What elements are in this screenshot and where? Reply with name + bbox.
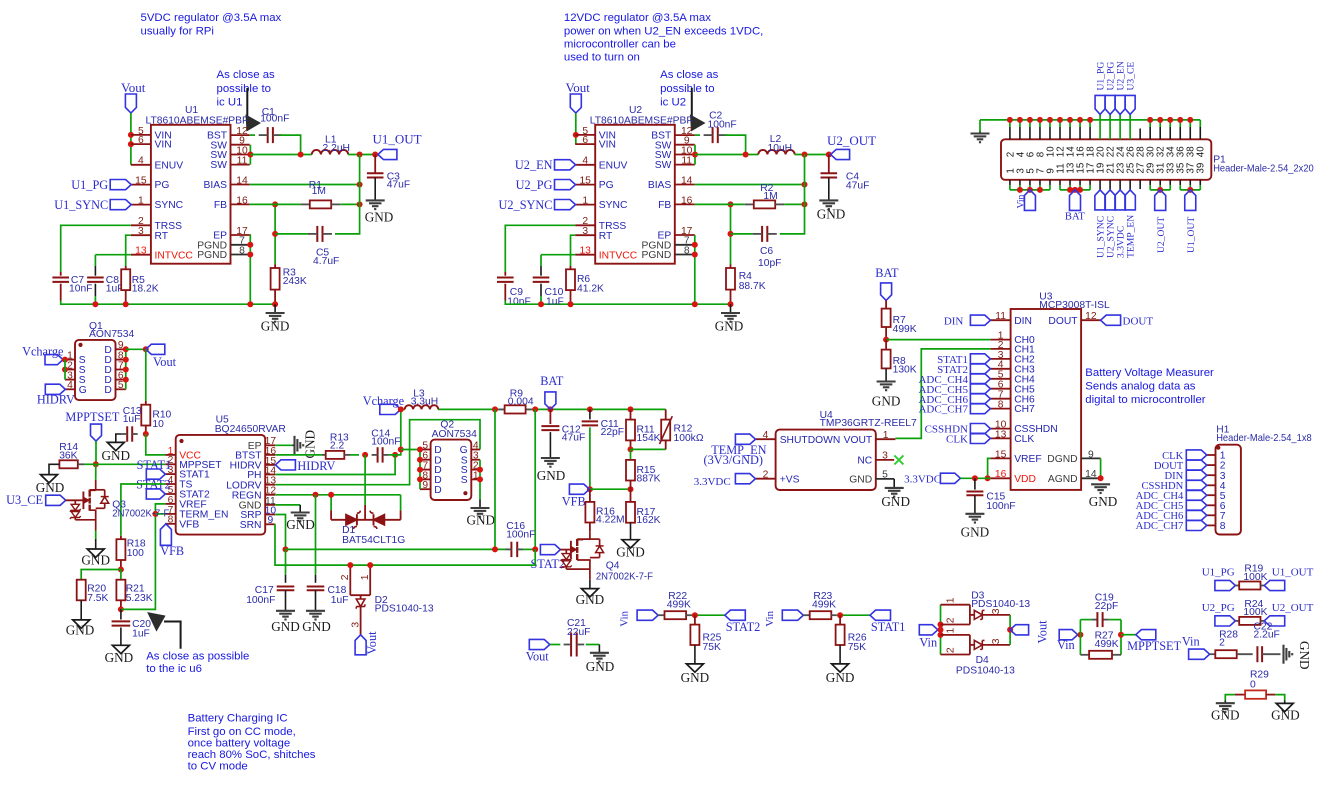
ic U2 LT8610ABEMSE#PBF body: [595, 125, 675, 264]
svg-text:1uF: 1uF: [331, 595, 349, 606]
wire Vout to VIN/ENUV: [130, 113, 132, 165]
connector P1 pin 25: [1129, 180, 1131, 190]
global label U1_PG (R19): [1215, 580, 1236, 590]
svg-text:CLK: CLK: [946, 434, 968, 446]
svg-text:100nF: 100nF: [986, 501, 1015, 512]
resistor R7: [882, 309, 891, 327]
svg-text:VOUT: VOUT: [844, 435, 873, 446]
svg-text:As close as: As close as: [217, 69, 276, 81]
svg-text:ic U2: ic U2: [660, 97, 686, 109]
resistor R12 (variable): [665, 409, 667, 419]
svg-text:U2_EN: U2_EN: [515, 158, 553, 172]
svg-text:GND: GND: [817, 206, 846, 221]
node R3-C5: [272, 231, 278, 237]
wire C6 to FB branch: [731, 233, 753, 235]
svg-text:Vin: Vin: [764, 610, 776, 626]
global label U2_PG (R24): [1215, 616, 1236, 626]
wire VREF TERM_EN net: [121, 504, 165, 610]
svg-text:SW: SW: [655, 160, 672, 171]
svg-text:4.22M: 4.22M: [596, 514, 625, 525]
svg-text:Sends analog data as: Sends analog data as: [1085, 381, 1196, 393]
Q4 mosfet symbol: [570, 541, 572, 559]
node VIN junctions: [128, 132, 134, 138]
svg-text:LT8610ABEMSE#PBF: LT8610ABEMSE#PBF: [590, 115, 693, 126]
wire P1 top bus: [980, 119, 1200, 121]
connector P1 pin 16: [1079, 120, 1081, 127]
svg-text:3.3uH: 3.3uH: [411, 397, 438, 408]
ground GND under C17: [276, 610, 295, 612]
svg-text:GND: GND: [105, 650, 134, 665]
ground GND right of EP (rotated): [293, 436, 295, 455]
svg-text:RT: RT: [599, 231, 613, 242]
svg-text:1: 1: [883, 430, 889, 441]
ground GND under R14: [41, 475, 58, 483]
svg-text:GND: GND: [872, 394, 901, 409]
connector P1 pin 17: [1089, 180, 1091, 185]
Q4 body diode: [590, 538, 600, 540]
wire P1 group pins29-33 (U2_OUT): [1150, 189, 1170, 191]
svg-text:D: D: [434, 485, 441, 496]
svg-text:Vin: Vin: [1015, 194, 1026, 208]
svg-text:22pF: 22pF: [601, 427, 624, 438]
svg-text:Vout: Vout: [121, 80, 146, 95]
resistor R6: [570, 266, 572, 269]
node D3 pin2: [938, 622, 944, 628]
global label U1_OUT (P1): [1185, 190, 1196, 211]
svg-text:GND: GND: [1089, 494, 1118, 509]
wire C7 to gnd rail: [61, 301, 275, 305]
svg-text:Vout: Vout: [365, 631, 379, 655]
connector P1 pin 10: [1049, 120, 1051, 127]
wire R29 left: [1225, 695, 1235, 701]
U3 left pins: [991, 319, 1011, 321]
connector P1 pin 8: [1039, 120, 1041, 127]
connector P1 pin 34: [1169, 120, 1171, 127]
ground GND under C15: [965, 513, 984, 515]
svg-text:100K: 100K: [1243, 607, 1267, 618]
wire PH net: [275, 455, 395, 475]
svg-text:GND: GND: [261, 319, 290, 334]
svg-text:FB: FB: [214, 200, 227, 211]
svg-text:U1_OUT: U1_OUT: [1272, 567, 1314, 579]
svg-text:GND: GND: [302, 619, 331, 634]
svg-text:Header-Male-2.54_1x8: Header-Male-2.54_1x8: [1216, 433, 1312, 444]
wire SW bus U2: [694, 145, 696, 165]
svg-text:14: 14: [681, 175, 693, 186]
Q3 mosfet symbol: [82, 492, 84, 510]
svg-text:3.3VDC: 3.3VDC: [694, 476, 731, 488]
global label Vin (C19/R27): [1059, 630, 1078, 640]
svg-text:Header-Male-2.54_2x20: Header-Male-2.54_2x20: [1213, 164, 1314, 175]
svg-text:SRN: SRN: [240, 520, 262, 531]
wire to STAT1: [837, 614, 870, 616]
svg-text:PG: PG: [599, 180, 614, 191]
svg-text:Vcharge: Vcharge: [363, 394, 405, 408]
svg-text:39: 39: [1196, 163, 1207, 174]
wire C19/R27 loop: [1079, 620, 1081, 655]
node VDD-C15: [972, 475, 978, 481]
wire L2 to out: [795, 154, 831, 156]
global label U3_CE (P1): [1125, 95, 1135, 114]
global label HIDRV (U5): [275, 460, 295, 470]
capacitor C10: [540, 266, 542, 276]
svg-text:Battery Charging IC: Battery Charging IC: [188, 712, 288, 724]
connector H1 pin 1 / label CLK: [1207, 454, 1216, 456]
connector P1 pin 40: [1199, 120, 1201, 127]
svg-text:5: 5: [118, 380, 124, 391]
svg-text:16: 16: [681, 195, 693, 206]
node C11 top: [587, 406, 593, 412]
wire R10 to VCC: [146, 434, 166, 455]
svg-text:15: 15: [579, 176, 591, 187]
wire REGN net: [275, 494, 400, 496]
svg-text:3: 3: [991, 638, 1002, 644]
ground GND under C18: [306, 610, 325, 612]
Q4 drain wire: [577, 531, 590, 539]
svg-text:14: 14: [236, 175, 248, 186]
resistor R26: [839, 615, 841, 624]
svg-text:1: 1: [945, 628, 956, 634]
resistor R24: [1235, 620, 1239, 622]
svg-text:1M: 1M: [763, 191, 777, 202]
svg-text:16: 16: [236, 195, 248, 206]
svg-text:U1_SYNC: U1_SYNC: [54, 198, 108, 212]
svg-text:TMP36GRTZ-REEL7: TMP36GRTZ-REEL7: [820, 418, 917, 429]
svg-text:1: 1: [138, 196, 144, 207]
node R11 top: [628, 406, 634, 412]
node out-C3: [372, 152, 378, 158]
node R2-vert: [802, 201, 808, 207]
Q1 left pins: [65, 359, 75, 361]
wire FB node to R4: [730, 204, 732, 264]
connector P1 pin 23: [1119, 180, 1121, 190]
node out-C4: [826, 152, 832, 158]
resistor R11: [630, 409, 632, 419]
capacitor C21: [550, 644, 561, 646]
svg-text:SW: SW: [210, 160, 227, 171]
svg-text:9: 9: [1088, 449, 1094, 460]
node EP-rail U2: [692, 301, 698, 307]
svg-text:154K: 154K: [637, 433, 661, 444]
svg-text:40: 40: [1196, 146, 1207, 157]
node Vcharge-Q2: [398, 447, 404, 453]
annotation arrow to U1: [246, 88, 248, 118]
svg-text:41.2K: 41.2K: [577, 283, 604, 294]
wire C9 to gnd rail U2: [505, 301, 730, 305]
transistor Q2 AON7534 body: [431, 440, 472, 500]
capacitor C1 (BST): [250, 134, 255, 136]
connector P1 pin 7: [1039, 180, 1041, 185]
ground GND right of R29: [1276, 703, 1293, 711]
global label 3.3VDC (P1): [1115, 190, 1125, 210]
node Vin-C19: [1077, 632, 1083, 638]
Q3 gate zeners: [74, 500, 76, 504]
node R18 bottom: [118, 567, 124, 573]
svg-text:CH7: CH7: [1014, 404, 1035, 415]
svg-text:Battery Voltage Measurer: Battery Voltage Measurer: [1085, 367, 1214, 379]
capacitor C8: [94, 266, 96, 276]
node SW-C2: [743, 152, 749, 158]
wire P1 group pins1-9 (Vin): [1010, 189, 1050, 191]
svg-text:100K: 100K: [1243, 572, 1267, 583]
connector P1 pin 2: [1009, 120, 1011, 127]
svg-text:100: 100: [127, 548, 144, 559]
svg-text:PG: PG: [155, 180, 170, 191]
resistor R10: [145, 401, 147, 405]
node L2-out: [802, 152, 808, 158]
svg-text:+VS: +VS: [780, 474, 800, 485]
wire DGND-AGND tie: [1100, 458, 1102, 478]
svg-text:22uF: 22uF: [567, 627, 590, 638]
svg-text:100nF: 100nF: [708, 120, 737, 131]
wire SRP net: [275, 515, 285, 550]
wire SW vertical branch: [335, 155, 360, 234]
resistor R23: [803, 614, 809, 616]
svg-text:SYNC: SYNC: [599, 200, 628, 211]
wire R29 right: [1275, 695, 1285, 701]
svg-text:2: 2: [340, 574, 351, 580]
global label U2_OUT (P1): [1155, 190, 1166, 211]
U5 right pins: [265, 444, 275, 446]
global label HIDRV (Q1 gate): [45, 384, 65, 394]
node R15-R17: [628, 486, 634, 492]
global label STAT1: [870, 610, 891, 620]
wire EP to gnd: [275, 444, 292, 446]
svg-text:U3_CE: U3_CE: [6, 493, 43, 507]
node SW-C1: [298, 152, 304, 158]
wire BIAS U2: [695, 184, 805, 186]
svg-text:2: 2: [763, 469, 769, 480]
Q2 source nodes: [477, 467, 483, 473]
ground GND U1 rail: [274, 304, 276, 313]
svg-text:499K: 499K: [893, 324, 917, 335]
connector H1 pin 8 / label ADC_CH7: [1207, 524, 1216, 526]
svg-text:GND: GND: [102, 448, 131, 463]
svg-text:5VDC regulator @3.5A max: 5VDC regulator @3.5A max: [141, 12, 282, 24]
svg-text:VFB: VFB: [179, 519, 199, 530]
wire TRSS to C7: [61, 225, 131, 272]
svg-text:ENUV: ENUV: [155, 160, 184, 171]
svg-text:BAT: BAT: [875, 266, 899, 280]
resistor R22: [658, 614, 664, 616]
svg-text:GND: GND: [961, 524, 990, 539]
U2 left pins: [575, 134, 595, 136]
wire BAT to R7: [885, 300, 887, 308]
ground GND right of C21: [590, 652, 609, 654]
node AGND: [1098, 475, 1104, 481]
wire P1 group pins11-17 (BAT): [1060, 189, 1090, 191]
svg-text:possible to: possible to: [217, 83, 271, 95]
svg-text:used to turn on: used to turn on: [564, 52, 640, 64]
resistor R18: [120, 536, 122, 539]
node PGND7: [247, 242, 253, 248]
node SW: [247, 152, 253, 158]
wire Vout to VIN: [575, 113, 577, 144]
svg-text:75K: 75K: [848, 642, 866, 653]
svg-text:100nF: 100nF: [371, 437, 400, 448]
global label DOUT: [1101, 315, 1121, 325]
svg-text:GND: GND: [81, 552, 110, 567]
ground GND under Q3: [87, 549, 104, 557]
resistor R17: [630, 489, 632, 502]
capacitor C14: [377, 447, 379, 462]
connector P1 pin 33: [1169, 180, 1171, 185]
svg-text:10nF: 10nF: [507, 296, 530, 307]
svg-text:GND: GND: [66, 623, 95, 638]
svg-text:BAT: BAT: [1065, 211, 1086, 222]
svg-text:U2_PG: U2_PG: [516, 178, 553, 192]
Q2 right pins: [471, 449, 480, 451]
node L1-out: [357, 152, 363, 158]
resistor R8: [885, 340, 887, 350]
resistor R13: [322, 454, 326, 456]
wire 3.3VDC to VDD: [960, 477, 990, 479]
svg-text:SHUTDOWN: SHUTDOWN: [780, 435, 841, 446]
svg-text:GND: GND: [616, 545, 645, 560]
wire VFB to R15/R17: [590, 488, 631, 490]
node C14-PH: [392, 452, 398, 458]
connector P1 pin 37: [1189, 180, 1191, 185]
resistor R9: [499, 408, 505, 410]
svg-text:47uF: 47uF: [387, 180, 410, 191]
wire R14 to gnd: [49, 464, 59, 474]
resistor R4: [730, 265, 732, 269]
transistor Q1 AON7534 body: [75, 340, 116, 400]
wire MPPSET to U5: [96, 463, 166, 465]
svg-text:GND: GND: [365, 210, 394, 225]
Q1 drain nodes: [123, 346, 129, 352]
ground GND under C3: [366, 199, 385, 201]
svg-text:STAT1: STAT1: [137, 458, 172, 472]
node SW U2: [692, 152, 698, 158]
global label Vout (Q1 out): [146, 344, 165, 354]
node BAT top: [547, 406, 553, 412]
resistor R5: [125, 266, 127, 269]
svg-text:to the ic u6: to the ic u6: [146, 663, 202, 675]
wire Q1 drain bus: [125, 349, 127, 389]
connector P1 pin 3: [1019, 180, 1021, 185]
svg-text:CLK: CLK: [1014, 434, 1034, 445]
ground GND under C20: [112, 645, 129, 653]
wire SW to L2: [695, 154, 758, 156]
wire sense line upper (C16): [286, 548, 506, 550]
svg-text:U2_OUT: U2_OUT: [827, 133, 876, 148]
svg-text:LT8610ABEMSE#PBF: LT8610ABEMSE#PBF: [146, 115, 249, 126]
capacitor C9: [504, 272, 506, 276]
svg-text:Vin: Vin: [619, 610, 631, 626]
resistor R25: [694, 615, 696, 624]
resistor R27: [1089, 651, 1112, 659]
capacitor C5: [316, 226, 318, 242]
svg-text:DIN: DIN: [1014, 316, 1032, 327]
node R4-C6: [728, 231, 734, 237]
Q3 body diode: [96, 489, 105, 491]
Q2 left pins: [420, 449, 431, 451]
svg-text:3: 3: [882, 451, 888, 462]
svg-text:PDS1040-13: PDS1040-13: [956, 665, 1015, 676]
annotation arrow to u6: [164, 622, 181, 649]
ground GND under C13: [107, 442, 124, 450]
wire INTVCC to C10: [541, 254, 575, 256]
ground GND under R17: [622, 540, 639, 548]
svg-text:100kΩ: 100kΩ: [674, 433, 704, 444]
svg-text:GND: GND: [537, 468, 566, 483]
svg-text:2: 2: [1219, 638, 1225, 649]
svg-text:0: 0: [1250, 680, 1256, 691]
wire RT to R5: [126, 235, 131, 266]
connector P1 pin 28 (nc): [1139, 129, 1141, 140]
svg-text:DOUT: DOUT: [1048, 316, 1078, 327]
node R4-rail: [728, 301, 734, 307]
node Q1 S1: [62, 357, 68, 363]
wire pin11 GND: [275, 504, 300, 506]
connector P1 pin 9: [1049, 180, 1051, 185]
svg-text:ENUV: ENUV: [599, 160, 628, 171]
svg-text:100nF: 100nF: [260, 114, 289, 125]
svg-text:U1_OUT: U1_OUT: [1186, 217, 1197, 253]
svg-text:2: 2: [945, 617, 956, 623]
svg-text:HIDRV: HIDRV: [37, 393, 75, 407]
svg-text:1: 1: [360, 574, 371, 580]
global label U2_PG (P1): [1105, 95, 1115, 114]
svg-text:88.7K: 88.7K: [739, 281, 766, 292]
inductor L3: [405, 405, 439, 409]
wire R1 to vert: [340, 203, 359, 205]
ic U4 TMP36GRTZ-REEL7 body: [776, 430, 876, 490]
svg-text:4: 4: [138, 156, 144, 167]
ground GND under R8: [877, 380, 896, 382]
svg-text:ic U1: ic U1: [217, 97, 243, 109]
svg-text:8: 8: [684, 245, 690, 256]
node Vout-R10: [143, 346, 149, 352]
resistor R2: [745, 203, 754, 205]
svg-text:9: 9: [422, 480, 428, 491]
wire CH0 net: [886, 339, 991, 341]
connector H1 pin 5 / label ADC_CH4: [1207, 494, 1216, 496]
svg-text:usually for RPi: usually for RPi: [141, 25, 214, 37]
connector H1 pin 4 / label CSSHDN: [1207, 484, 1216, 486]
svg-text:8: 8: [239, 245, 245, 256]
svg-text:6: 6: [138, 135, 144, 146]
svg-text:130K: 130K: [893, 365, 917, 376]
capacitor C15: [974, 478, 976, 489]
wire Q1 drain to Vout label: [126, 348, 146, 350]
svg-text:ADC_CH7: ADC_CH7: [918, 404, 968, 416]
svg-text:As close as possible: As close as possible: [146, 650, 249, 662]
connector P1 pin 35: [1179, 180, 1181, 185]
svg-text:6: 6: [582, 135, 588, 146]
svg-text:STAT1: STAT1: [871, 620, 906, 634]
ground GND left of R29: [1216, 702, 1235, 704]
global label U1_OUT (R19): [1264, 580, 1285, 590]
svg-text:4.7uF: 4.7uF: [313, 256, 339, 267]
Q3 gate lead: [66, 499, 84, 501]
capacitor C18: [307, 586, 325, 588]
resistor R20: [77, 580, 86, 601]
svg-text:162K: 162K: [637, 515, 661, 526]
wire C18 column: [315, 495, 317, 575]
svg-text:AON7534: AON7534: [89, 329, 134, 340]
wire R9 left sense: [494, 409, 496, 549]
svg-text:As close as: As close as: [660, 69, 719, 81]
wire to STAT2: [692, 614, 725, 616]
svg-text:Vin: Vin: [919, 636, 937, 650]
connector P1 pin 19: [1099, 180, 1101, 190]
svg-text:PDS1040-13: PDS1040-13: [971, 599, 1030, 610]
global label Vin (P1): [1024, 190, 1035, 211]
svg-text:100nF: 100nF: [246, 595, 275, 606]
node R6-rail: [568, 301, 574, 307]
